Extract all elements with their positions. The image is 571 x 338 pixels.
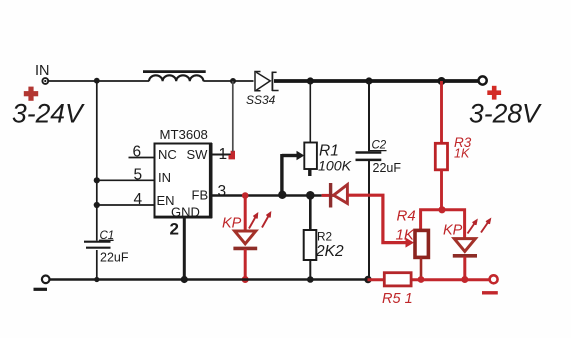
node IN terminal [42,78,48,84]
LED KP1 arrows [249,213,270,229]
LED KP1 body [235,231,256,244]
resistor R2 body [304,230,317,260]
op-amp U1 MT3608 body [154,143,212,218]
diode D red left-pointing cathode bar [329,183,332,208]
potentiometer R1 wiper arrow [282,151,304,196]
svg-text:R5 1: R5 1 [382,291,413,307]
label C2 underlined [368,140,387,152]
node LED KP2 bottom [461,276,468,283]
R4 wiper arrowhead [406,238,415,248]
svg-text:5: 5 [134,166,143,183]
svg-text:R1: R1 [319,143,339,160]
resistor R4 body [415,230,428,257]
capacitor C1 lower wire [96,250,98,280]
inductor L [143,72,206,82]
LED KP2 body [454,239,475,252]
node SW top junction [230,78,236,84]
svg-text:6: 6 [133,144,142,161]
ground rail black [46,278,368,281]
svg-text:3-24V: 3-24V [12,99,85,129]
svg-text:MT3608: MT3608 [160,127,208,142]
LED KP1 riser bottom [244,249,247,280]
label plus input [24,87,38,101]
diode D red body [334,185,348,204]
svg-text:SW: SW [187,147,209,162]
svg-text:1: 1 [219,146,228,163]
node C2 top [365,77,372,84]
svg-text:KP: KP [443,223,463,239]
svg-text:SS34: SS34 [246,93,276,107]
node R4 bottom [418,276,425,283]
capacitor C2 plates [356,153,382,160]
resistor R5 body [384,273,411,286]
pin 2 GND wire [183,218,186,280]
potentiometer R1 bottom stub [308,169,311,176]
node R2 bottom [307,276,314,283]
svg-text:KP: KP [222,216,242,232]
pin 6 stub [129,157,155,159]
resistor R3 riser bottom [440,170,443,210]
svg-text:2: 2 [170,220,179,239]
LED KP2 riser bottom [463,256,466,279]
wire input riser [96,81,98,241]
svg-text:C2: C2 [372,140,387,152]
potentiometer R1 riser [309,81,311,143]
wire inductor to SW node [203,80,233,82]
svg-text:22uF: 22uF [373,161,402,175]
node R1 top [307,77,314,84]
node input junction [94,78,100,84]
resistor R2 top wire [309,196,312,231]
node FB red dot [242,192,249,199]
resistor R4 bottom wire [420,257,423,279]
ground minus bar [34,288,48,291]
capacitor C2 lower wire [368,161,370,280]
output minus terminal [490,275,498,283]
node C1 bottom [94,277,99,282]
svg-text:4: 4 [134,191,143,208]
svg-text:FB: FB [192,188,209,203]
pin 1 SW stub [212,154,231,156]
node pin4 junction [94,202,100,208]
svg-text:R2: R2 [317,230,332,244]
pin 4 stub [97,204,155,206]
pin 3 FB wire [212,194,322,197]
node LED KP1 bottom [242,276,249,283]
ground terminal [42,276,50,284]
output minus bar [482,291,498,294]
node C2 bottom [364,276,371,283]
svg-text:100K: 100K [318,159,352,175]
svg-text:IN: IN [35,63,50,79]
wire output rail thick [274,79,479,83]
wire node to diode [233,80,254,82]
svg-text:GND: GND [171,205,200,220]
node pin5 junction [94,177,100,183]
diode SS34 [255,72,279,92]
wire SW red corner [229,151,233,157]
LED KP2 arrows [468,220,491,234]
svg-text:2K2: 2K2 [315,243,344,260]
svg-text:3: 3 [218,183,227,200]
resistor R2 bottom wire [309,260,311,280]
resistor R3 body [435,143,447,170]
svg-text:R4: R4 [397,208,416,225]
svg-text:1K: 1K [454,147,470,161]
label plus output [487,86,501,100]
svg-text:1K: 1K [396,227,415,244]
wire input to inductor [48,80,149,82]
svg-text:22uF: 22uF [100,251,129,265]
svg-text:NC: NC [158,147,177,162]
wire rung R4-LED2 [421,210,465,238]
node R3 bottom junction [438,206,445,213]
LED KP1 cathode bar [233,247,257,251]
LED KP1 riser top [244,196,247,232]
wire diode to R4 wiper [347,195,407,242]
node output terminal [479,76,487,84]
LED KP2 cathode bar [453,254,477,258]
capacitor C1 plates [84,242,111,248]
pin 5 stub [97,179,155,181]
svg-text:IN: IN [158,170,171,185]
potentiometer R1 body [304,143,317,170]
resistor R3 riser top [440,81,443,143]
node R3 top [438,77,446,85]
ground rail red [368,278,491,281]
svg-text:3-28V: 3-28V [469,99,542,129]
node wiper-FB junction [278,191,286,199]
node GND pin bottom [181,276,188,283]
wire SW riser [232,81,234,152]
capacitor C2 riser [368,81,370,151]
node R2-FB junction [306,191,315,200]
